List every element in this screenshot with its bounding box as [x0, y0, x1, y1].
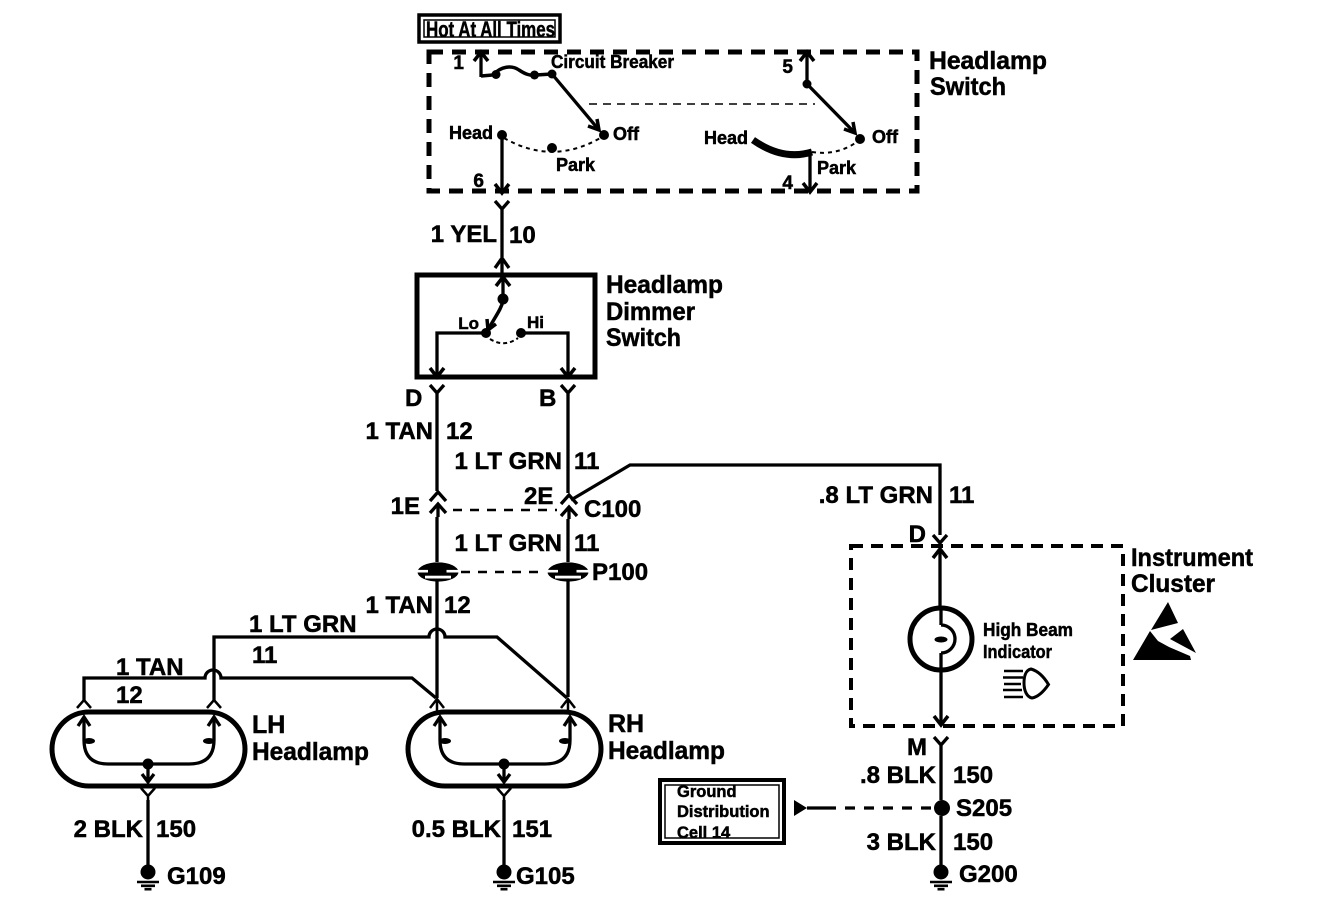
svg-text:5: 5: [782, 57, 793, 78]
circuit breaker: [481, 67, 557, 79]
connector chevron terminal D: [430, 385, 444, 399]
svg-text:Indicator: Indicator: [983, 642, 1052, 662]
svg-text:B: B: [539, 385, 556, 412]
svg-text:3 BLK: 3 BLK: [867, 829, 937, 856]
svg-text:Headlamp: Headlamp: [606, 271, 723, 299]
dashed arc Park-Off (right): [812, 141, 858, 153]
wire 1 TAN C100 to P100: [435, 517, 438, 562]
connector chevron LH headlamp right: [207, 700, 221, 708]
headlamp switch dashed box: [429, 52, 917, 191]
svg-text:D: D: [405, 385, 422, 412]
svg-text:S205: S205: [956, 795, 1012, 822]
svg-text:1: 1: [453, 53, 464, 74]
svg-text:Dimmer: Dimmer: [606, 298, 695, 326]
svg-text:Off: Off: [613, 124, 640, 144]
svg-text:C100: C100: [584, 496, 641, 523]
svg-text:10: 10: [509, 222, 536, 249]
pin 1 arrow: [474, 52, 488, 77]
svg-text:Instrument: Instrument: [1131, 544, 1254, 572]
svg-text:1 TAN: 1 TAN: [365, 418, 433, 445]
dimmer Hi output wire: [521, 333, 575, 377]
RH headlamp body: [408, 712, 601, 786]
node Hi: [516, 328, 526, 338]
svg-text:.8 LT GRN: .8 LT GRN: [819, 482, 933, 509]
svg-text:1 LT GRN: 1 LT GRN: [454, 448, 562, 475]
wire 1 LT GRN C100 to P100: [566, 519, 569, 562]
svg-text:G200: G200: [959, 861, 1018, 888]
thin dashed link between switch halves: [589, 103, 815, 105]
connector chevron into dimmer switch: [495, 258, 509, 274]
svg-text:Hot At All Times: Hot At All Times: [426, 17, 555, 42]
ground G200: [930, 865, 952, 890]
node pivot (right): [803, 80, 812, 89]
svg-text:1E: 1E: [391, 493, 420, 520]
wire 1 LT GRN from B: [566, 399, 569, 493]
connector chevron M: [934, 737, 948, 749]
cluster input arrow: [933, 549, 947, 607]
svg-text:1 LT GRN: 1 LT GRN: [454, 530, 562, 557]
svg-text:150: 150: [953, 829, 993, 856]
branch wire 1 TAN to LH headlamp: [84, 670, 436, 700]
dashed arc Lo-Hi: [490, 338, 518, 343]
ground G105: [493, 865, 515, 890]
pin 4 wire with arrow: [803, 153, 817, 192]
svg-text:151: 151: [512, 816, 552, 843]
high beam icon: [1003, 669, 1049, 698]
wire 1 TAN P100 to RH headlamp: [435, 581, 438, 698]
LH headlamp label: [252, 711, 369, 766]
svg-text:Cluster: Cluster: [1131, 570, 1215, 598]
connector C100 terminal 1E chevrons: [430, 492, 446, 517]
thick wiper arc Head to Park (right): [753, 140, 812, 155]
svg-text:2E: 2E: [524, 483, 553, 510]
connector chevron terminal B: [561, 385, 575, 399]
Hot At All Times callout box: [419, 15, 560, 42]
svg-text:11: 11: [252, 642, 277, 669]
svg-text:2 BLK: 2 BLK: [74, 816, 144, 843]
ground G109: [137, 865, 159, 890]
wire .8 BLK: [939, 749, 942, 800]
dashed arc Head-Park-Off (left): [504, 137, 602, 152]
svg-text:RH: RH: [608, 710, 644, 738]
connector chevron D instrument cluster: [933, 535, 947, 547]
svg-text:Lo: Lo: [458, 314, 479, 333]
svg-text:Distribution: Distribution: [677, 803, 770, 821]
svg-text:Switch: Switch: [930, 73, 1006, 101]
connector chevron below LH headlamp: [141, 788, 155, 800]
svg-text:Headlamp: Headlamp: [929, 47, 1047, 75]
svg-text:G105: G105: [516, 863, 575, 890]
wire 1 LT GRN P100 down: [566, 581, 569, 697]
svg-text:P100: P100: [592, 559, 648, 586]
svg-text:Head: Head: [449, 123, 493, 143]
LH headlamp body: [52, 712, 245, 786]
svg-text:Cell 14: Cell 14: [677, 824, 731, 842]
svg-text:11: 11: [574, 530, 599, 557]
svg-text:Hi: Hi: [527, 313, 544, 332]
svg-text:12: 12: [444, 592, 471, 619]
ground distribution dashed leader with arrowhead: [794, 800, 934, 816]
node Off (left): [599, 130, 609, 140]
connector chevron below RH headlamp: [497, 788, 511, 800]
dimmer common node: [498, 294, 509, 305]
dimmer wiper arrow to Lo: [487, 301, 503, 330]
ground distribution callout box: [660, 780, 784, 843]
ESD sensitive symbol: [1133, 602, 1196, 660]
svg-text:Ground: Ground: [677, 783, 737, 801]
svg-text:Off: Off: [872, 127, 899, 147]
dimmer input arrow: [496, 277, 510, 299]
svg-text:11: 11: [949, 482, 974, 509]
connector chevron RH headlamp right: [561, 699, 575, 713]
wire 1 TAN from D: [435, 399, 438, 491]
svg-text:1 TAN: 1 TAN: [116, 654, 184, 681]
instrument cluster label: [1131, 544, 1254, 598]
node Off (right): [855, 134, 865, 144]
svg-text:6: 6: [473, 171, 484, 192]
grommet P100 dashed line: [461, 571, 545, 574]
svg-text:0.5 BLK: 0.5 BLK: [412, 816, 502, 843]
splice S205: [934, 800, 950, 816]
svg-text:4: 4: [782, 173, 793, 194]
branch wire .8 LT GRN to instrument cluster: [571, 465, 940, 535]
dimmer Lo output wire: [430, 333, 486, 377]
svg-text:1 LT GRN: 1 LT GRN: [249, 611, 357, 638]
wire 1 YEL: [500, 213, 503, 257]
svg-text:Circuit Breaker: Circuit Breaker: [551, 52, 674, 72]
instrument cluster dashed box: [851, 546, 1123, 726]
wire lamp to cluster bottom with arrow: [934, 670, 948, 725]
svg-text:High Beam: High Beam: [983, 620, 1073, 640]
svg-text:Park: Park: [556, 155, 596, 175]
svg-text:M: M: [907, 734, 927, 761]
headlamp dimmer switch label: [606, 271, 723, 352]
node Lo: [481, 328, 491, 338]
connector chevron below pin 6: [495, 201, 509, 213]
RH headlamp label: [608, 710, 725, 765]
grommet P100 left: [416, 562, 461, 581]
high beam indicator lamp: [910, 607, 972, 670]
svg-text:Switch: Switch: [606, 324, 681, 352]
svg-text:150: 150: [156, 816, 196, 843]
node Head (left): [497, 130, 507, 140]
connector chevron LH headlamp left: [77, 700, 91, 708]
svg-text:150: 150: [953, 762, 993, 789]
svg-text:Head: Head: [704, 128, 748, 148]
LH headlamp internal circuit: [78, 717, 220, 782]
branch wire 1 LT GRN to LH headlamp: [214, 629, 567, 700]
headlamp switch label: [929, 47, 1047, 101]
svg-text:.8 BLK: .8 BLK: [860, 762, 937, 789]
wire 0.5 BLK: [502, 800, 505, 866]
svg-text:1 TAN: 1 TAN: [365, 592, 433, 619]
connector chevron RH headlamp left: [430, 699, 444, 713]
svg-text:Headlamp: Headlamp: [252, 738, 369, 766]
svg-text:11: 11: [574, 448, 599, 475]
right switch wiper arrow to Off: [807, 84, 855, 133]
wire 2 BLK: [146, 800, 149, 866]
pin 6 wire with arrow: [495, 137, 509, 193]
svg-text:D: D: [909, 521, 926, 548]
svg-text:12: 12: [446, 418, 473, 445]
wire 3 BLK: [939, 816, 942, 866]
svg-text:1 YEL: 1 YEL: [431, 221, 497, 248]
svg-text:G109: G109: [167, 863, 226, 890]
svg-text:Headlamp: Headlamp: [608, 737, 725, 765]
RH headlamp internal circuit: [434, 717, 576, 782]
connector C100 terminal 2E chevrons: [561, 495, 577, 519]
svg-text:12: 12: [116, 682, 143, 709]
svg-text:LH: LH: [252, 711, 285, 739]
headlamp dimmer switch box: [417, 275, 595, 377]
grommet P100 right: [546, 562, 591, 581]
connector C100 dashed line: [453, 509, 557, 512]
svg-text:Park: Park: [817, 158, 857, 178]
left switch wiper arrow to Off: [552, 74, 599, 130]
high beam indicator label: [983, 620, 1073, 662]
node Park (left): [547, 143, 557, 153]
pin 5 arrow: [800, 52, 814, 85]
